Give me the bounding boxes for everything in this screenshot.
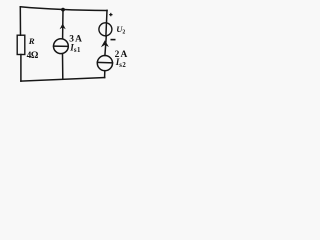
svg-text:R: R — [28, 36, 35, 46]
svg-text:4Ω: 4Ω — [27, 51, 39, 61]
